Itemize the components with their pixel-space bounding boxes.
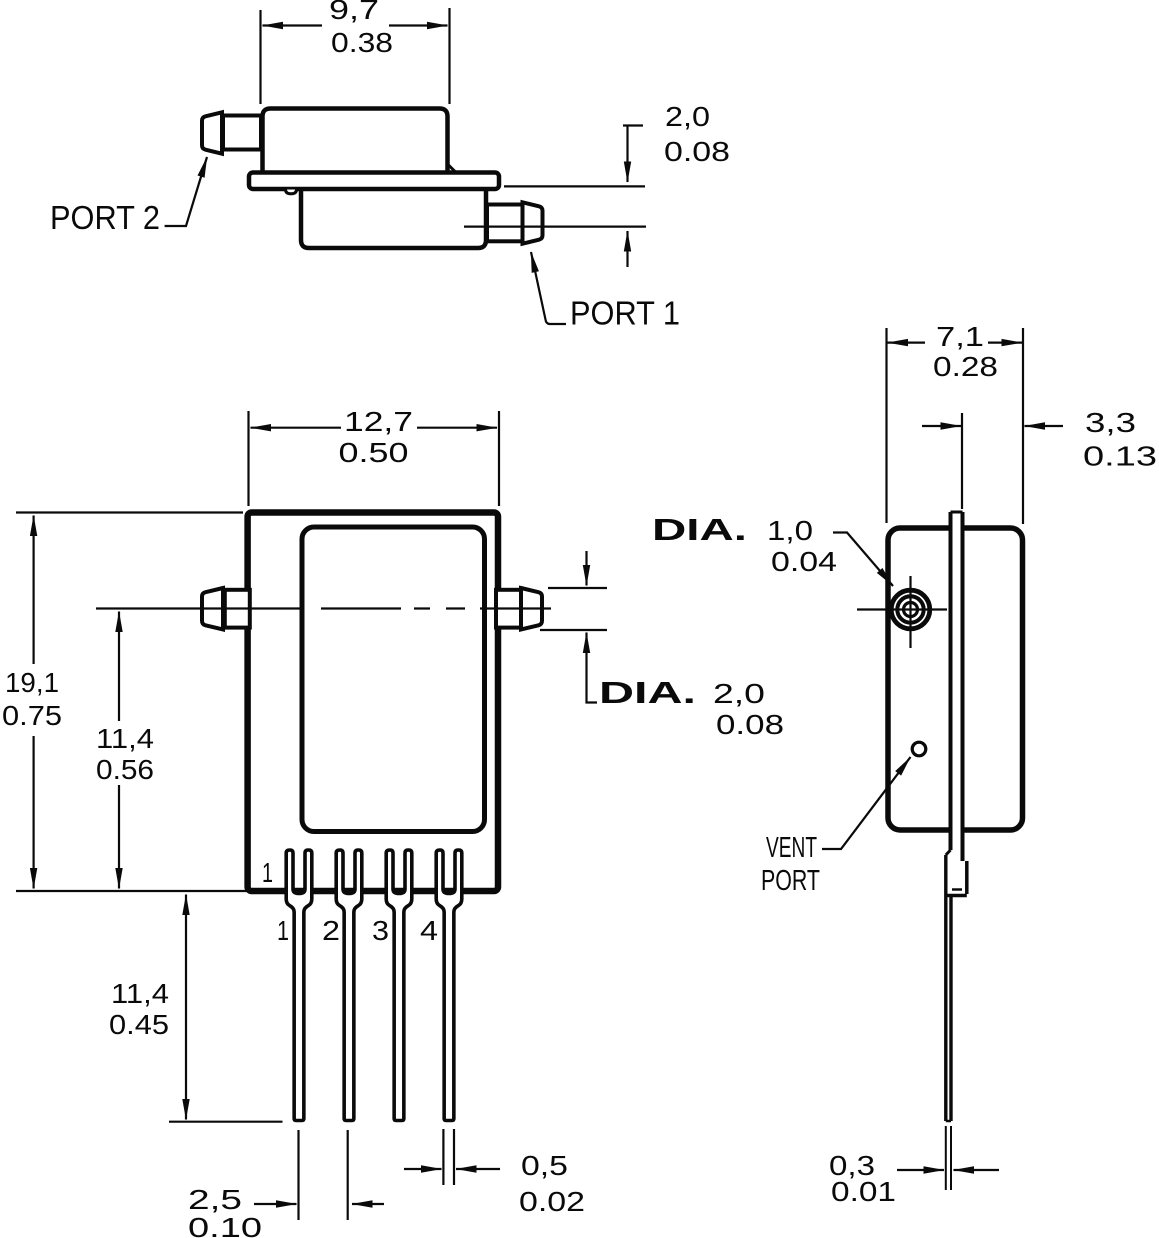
svg-text:11,4: 11,4	[111, 978, 169, 1009]
side view: port bullseye outer circle	[891, 590, 930, 629]
dimension 0,5/0.02: left arrow	[404, 1168, 442, 1170]
front view: horizontal centerline	[96, 607, 551, 609]
side view: pin right edge	[949, 897, 952, 1121]
side view: base plate right edge	[961, 512, 965, 861]
svg-text:PORT 1: PORT 1	[570, 295, 680, 332]
dimension 12,7/0.50: right arrow	[417, 427, 497, 429]
dimension 7,1/0.28: right extension line	[1022, 328, 1024, 524]
svg-text:19,1: 19,1	[5, 667, 59, 698]
svg-text:1: 1	[262, 857, 273, 888]
svg-text:2,0: 2,0	[665, 101, 710, 132]
side view: pin bottom cap	[946, 1120, 951, 1123]
dimension DIA 2,0: down arrow	[585, 551, 587, 586]
side view: port bullseye inner circle	[904, 603, 918, 617]
dimension 2,0/0.08: down arrow	[626, 126, 628, 183]
side view: pin bend step	[946, 850, 951, 855]
svg-text:0.56: 0.56	[96, 754, 154, 785]
dimension DIA 2,0: up arrow + bracket	[585, 633, 587, 674]
side view: crosshair horizontal	[857, 608, 947, 610]
dimension 0,3/0.01: right arrow	[954, 1169, 1000, 1171]
dimension 2,5/0.10: pin1 extension line	[297, 1130, 299, 1220]
side view: body	[888, 528, 1023, 830]
dimension 0,5/0.02: right arrow	[456, 1168, 500, 1170]
front view: body	[248, 513, 498, 892]
svg-text:2: 2	[322, 915, 340, 946]
dimension DIA 2,0: lower reference line	[540, 629, 607, 631]
svg-text:1,0: 1,0	[767, 515, 813, 546]
svg-text:0.28: 0.28	[933, 351, 998, 382]
side view: base plate left edge	[949, 512, 953, 850]
svg-text:11,4: 11,4	[96, 723, 154, 754]
port 2 barb	[202, 112, 222, 153]
side view: pin bend outer edge	[965, 861, 969, 894]
svg-text:DIA.: DIA.	[599, 675, 696, 710]
dimension 0,3/0.01: right extension line	[950, 1126, 952, 1190]
pin 2 (front view)	[336, 850, 362, 1121]
dimension 2,5/0.10: right-pointing arrow	[254, 1203, 297, 1205]
svg-text:0.38: 0.38	[331, 27, 393, 58]
dimension 9,7/0.38: left extension line	[259, 10, 261, 104]
svg-text:0.08: 0.08	[664, 136, 730, 167]
dimension 11,4/0.45: pin-end reference line	[169, 1121, 283, 1123]
top view: lower housing	[301, 184, 486, 248]
dimension 2,0/0.08: leader foot	[623, 124, 643, 126]
dimension 0,5/0.02: pin4 left extension line	[442, 1129, 444, 1185]
svg-text:12,7: 12,7	[344, 406, 413, 437]
svg-text:2,5: 2,5	[188, 1184, 242, 1215]
svg-text:0.01: 0.01	[831, 1176, 896, 1207]
side view: crosshair vertical	[909, 576, 911, 648]
dimension 19,1/0.75: top extension line	[16, 511, 243, 513]
port 2 stem	[223, 116, 261, 150]
dimension 7,1/0.28: left arrow	[888, 342, 926, 344]
front view: right port stem	[496, 590, 522, 628]
svg-text:PORT 2: PORT 2	[50, 199, 160, 236]
svg-text:0.02: 0.02	[519, 1186, 585, 1217]
svg-text:2,0: 2,0	[713, 678, 765, 709]
dimension 3,3/0.13: right arrow	[1025, 425, 1064, 427]
dimension 2,5/0.10: left-pointing arrow	[352, 1203, 384, 1205]
VENT PORT leader	[822, 757, 911, 849]
top view: corner tick at flange	[447, 164, 455, 172]
svg-text:0.04: 0.04	[771, 546, 837, 577]
svg-text:PORT: PORT	[761, 865, 820, 897]
side view: vent port hole	[912, 742, 926, 756]
dimension 7,1/0.28: right arrow	[988, 342, 1022, 344]
svg-text:0.45: 0.45	[109, 1009, 169, 1040]
front view: left port barb	[202, 588, 223, 630]
svg-text:9,7: 9,7	[329, 0, 379, 25]
svg-text:0,5: 0,5	[521, 1150, 568, 1181]
top view: upper housing	[263, 109, 448, 177]
dimension 0,5/0.02: pin4 right extension line	[453, 1129, 455, 1185]
port 1 stem	[487, 205, 523, 242]
svg-text:4: 4	[420, 915, 438, 946]
svg-text:0.10: 0.10	[188, 1212, 262, 1238]
side view: base plate bottom end	[952, 888, 962, 891]
dimension 7,1/0.28: left extension line	[885, 328, 887, 523]
DIA 1,0 leader	[833, 533, 893, 587]
svg-text:0.50: 0.50	[339, 437, 409, 468]
svg-text:0.75: 0.75	[2, 700, 62, 731]
PORT 2 leader	[165, 157, 207, 226]
dimension 19,1/0.75: bottom extension line	[16, 890, 247, 892]
top view: mounting flange	[249, 173, 499, 190]
side view: base plate interior	[953, 511, 961, 890]
svg-text:0.08: 0.08	[716, 709, 784, 740]
svg-text:3: 3	[372, 915, 389, 946]
port 1 centerline	[464, 226, 646, 228]
dimension 19,1/0.75: lower arrow	[32, 736, 34, 889]
front view: inner cavity	[302, 527, 485, 832]
dimension 0,3/0.01: left arrow	[897, 1169, 944, 1171]
pin 4 (front view)	[436, 850, 462, 1121]
dimension 2,5/0.10: pin2 extension line	[347, 1130, 349, 1220]
front view: left port stem	[225, 590, 250, 628]
dimension DIA 2,0: upper reference line	[548, 587, 607, 589]
dimension 2,0/0.08: up arrow	[626, 231, 628, 267]
dimension 9,7/0.38: left arrow	[263, 24, 323, 26]
dimension 12,7/0.50: right extension line	[498, 411, 500, 506]
dimension 3,3/0.13: left arrow	[922, 425, 961, 427]
front view: right port barb	[521, 588, 542, 630]
PORT 1 leader	[531, 252, 566, 324]
svg-text:DIA.: DIA.	[652, 512, 747, 547]
pin 3 (front view)	[386, 850, 412, 1121]
side view: pin bend bottom hook	[946, 894, 967, 898]
svg-text:3,3: 3,3	[1085, 407, 1136, 438]
svg-text:1: 1	[277, 915, 289, 946]
dimension 0,3/0.01: left extension line	[945, 1126, 947, 1190]
dimension 9,7/0.38: right arrow	[389, 24, 448, 26]
side view: base plate top cap	[951, 511, 963, 514]
svg-text:VENT: VENT	[766, 832, 817, 864]
pin 1 (front view)	[286, 850, 312, 1121]
dimension 12,7/0.50: left arrow	[251, 427, 342, 429]
dimension 3,3/0.13: extension line	[961, 413, 963, 509]
dimension 11,4/0.45: dimension line with arrows	[185, 895, 187, 1001]
dimension 19,1/0.75: upper arrow	[32, 516, 34, 665]
side view: pin left edge	[944, 855, 947, 1121]
side view: port bullseye middle circle	[897, 596, 923, 622]
top view: small bump under flange	[286, 190, 297, 194]
dimension 12,7/0.50: left extension line	[247, 411, 249, 506]
port 1 barb	[523, 202, 543, 243]
dimension 2,0/0.08: flange bottom reference line	[504, 185, 645, 187]
svg-text:0.13: 0.13	[1083, 441, 1157, 472]
dimension 11,4/0.56: lower arrow	[118, 785, 120, 889]
dimension 9,7/0.38: right extension line	[448, 8, 450, 104]
svg-text:7,1: 7,1	[936, 321, 984, 352]
dimension 11,4/0.56: upper arrow	[118, 612, 120, 722]
